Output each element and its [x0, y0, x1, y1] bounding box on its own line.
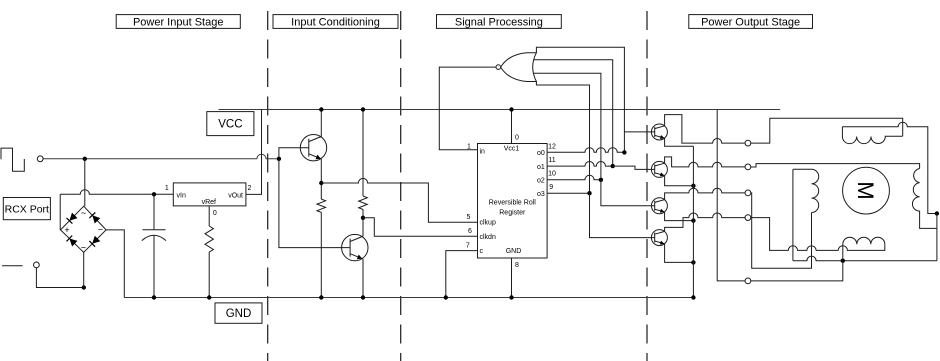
GND rail: [124, 297, 693, 299]
terminal J7: [745, 278, 751, 284]
junction: o0 node: [622, 150, 626, 154]
wire: AC tap down to bridge: [84, 159, 86, 206]
svg-text:0: 0: [515, 135, 519, 142]
resistor R3: [359, 196, 368, 210]
wire: o1 row: [547, 162, 613, 167]
wire: clkdn to register: [363, 218, 478, 237]
junction: o3 node: [587, 191, 591, 195]
junction: clkup node: [319, 181, 323, 185]
wire: J2 to bridge AC2: [36, 268, 83, 288]
svg-text:7: 7: [466, 243, 470, 250]
wire: bridge - to GND: [106, 230, 124, 298]
wire: L1 left to motor-right node: [842, 122, 937, 213]
wire: R3 to Q2 collector node: [362, 210, 364, 218]
wire: vRef lead: [208, 206, 210, 226]
junction: R2 bottom on GND: [319, 295, 323, 299]
wire: Q3 emitter to bus: [665, 138, 694, 146]
VCC rail: [219, 109, 781, 111]
wire: o1 to Q4 base: [613, 166, 655, 169]
voltage regulator U1: [173, 183, 246, 206]
wire: node A to Q2 base: [279, 159, 350, 248]
svg-text:−: −: [98, 225, 103, 235]
svg-text:GND: GND: [506, 248, 522, 255]
stage label: Power Input Stage: [116, 15, 240, 29]
NOR gate U2: [501, 53, 537, 82]
register U3 (Reversible Roll Register): [478, 144, 548, 259]
svg-text:5: 5: [467, 214, 471, 221]
svg-text:8: 8: [515, 262, 519, 269]
svg-text:vOut: vOut: [228, 192, 243, 199]
terminal J5: [745, 190, 751, 196]
square wave source icon: [1, 148, 24, 171]
emitter bus to GND: [692, 146, 694, 297]
svg-text:11: 11: [548, 157, 555, 164]
wire: gate input 4: [536, 82, 589, 194]
svg-text:clkdn: clkdn: [480, 234, 496, 241]
wire: Q5 collector to J5: [665, 188, 745, 199]
stage label: Signal Processing: [437, 15, 562, 29]
stage separator 1 (dashed): [267, 11, 269, 361]
wire: J6 to L3 baseline: [751, 218, 885, 251]
terminal J2: [34, 262, 40, 268]
inductor L2 (left): [793, 169, 819, 212]
junction: C1 top: [152, 192, 156, 196]
svg-text:in: in: [480, 148, 486, 155]
junction: Q1 collector on VCC: [319, 107, 323, 111]
junction: o2 node: [599, 178, 603, 182]
svg-text:o2: o2: [537, 178, 545, 185]
wire: L2 top to W5: [792, 169, 794, 260]
junction: right node top: [935, 211, 939, 215]
wire: bridge + output to vIn: [60, 190, 173, 195]
wire: right node down to W5: [936, 214, 938, 261]
svg-text:RCX Port: RCX Port: [5, 203, 49, 215]
stage label: Power Output Stage: [689, 15, 813, 29]
wire: o0 to Q3 base: [624, 131, 654, 133]
stage label: Input Conditioning: [273, 15, 398, 29]
junction: bridge AC tap: [83, 157, 87, 161]
wire: Q1 emitter down: [320, 159, 322, 199]
inductor L3 (bottom): [843, 237, 885, 261]
capacitor C1: [153, 194, 155, 229]
wire: J1 to node A: [43, 154, 279, 159]
junction: Vcc1 on VCC: [509, 107, 513, 111]
svg-text:o1: o1: [537, 164, 545, 171]
svg-text:9: 9: [549, 184, 553, 191]
junction: o1 node: [611, 164, 615, 168]
resistor R1 (vRef): [205, 226, 213, 252]
wire: Q4 collector to J4: [665, 157, 745, 167]
wire: Q6 emitter to bus: [665, 244, 694, 263]
junction: c pin on GND: [444, 295, 448, 299]
junction: R1 bottom on GND: [207, 295, 211, 299]
wire: J5 to L2 bottom: [751, 193, 812, 268]
wire: gate input 3: [534, 73, 601, 180]
svg-text:clkup: clkup: [480, 220, 496, 227]
wire: c pin to GND: [446, 251, 478, 298]
wire: R1 to GND: [208, 252, 210, 297]
svg-text:0: 0: [213, 210, 217, 217]
wire: vOut to VCC rail: [246, 110, 262, 195]
wire: o2 row: [547, 175, 601, 180]
wire: gate input 1: [536, 47, 624, 152]
input stub wire: [2, 265, 23, 267]
terminal J3: [745, 140, 751, 146]
inductor L4 (right): [912, 169, 936, 229]
wire: Vcc1 pin to VCC rail: [511, 110, 513, 144]
wire: Q2 collector up: [362, 218, 364, 237]
motor M1: [843, 167, 890, 214]
junction: C1 bottom on GND: [152, 295, 156, 299]
junction: GND pin on rail: [509, 295, 513, 299]
wire: o3 row: [547, 192, 589, 194]
wire: J7 to W5 node: [751, 261, 843, 281]
terminal J1: [37, 156, 43, 162]
wire: o0 row: [547, 148, 624, 153]
svg-text:Signal Processing: Signal Processing: [455, 17, 543, 29]
svg-text:Power Output Stage: Power Output Stage: [701, 17, 800, 29]
wire: gate output to register in: [439, 67, 496, 150]
svg-text:vRef: vRef: [202, 199, 216, 206]
junction: bus on GND rail: [691, 295, 695, 299]
wire: gate input 2: [534, 60, 613, 166]
junction: node A: [277, 157, 281, 161]
svg-text:GND: GND: [226, 308, 252, 320]
terminal J6: [745, 215, 751, 221]
inductor L1 (top): [842, 127, 902, 144]
svg-text:6: 6: [468, 228, 472, 235]
RCX Port label: [3, 198, 50, 220]
svg-text:M: M: [853, 181, 878, 199]
transistor Q5: [651, 198, 667, 214]
svg-text:1: 1: [165, 185, 169, 192]
transistor Q3: [651, 124, 667, 140]
svg-text:vIn: vIn: [177, 192, 186, 199]
wire: bridge + riser: [59, 194, 61, 230]
svg-text:2: 2: [248, 185, 252, 192]
svg-text:1: 1: [467, 143, 471, 150]
junction: Q4 emitter on bus: [691, 184, 695, 188]
svg-text:o3: o3: [537, 191, 545, 198]
svg-text:VCC: VCC: [218, 119, 242, 131]
svg-text:~: ~: [81, 243, 86, 253]
svg-text:o0: o0: [537, 150, 545, 157]
wire: clkup to register: [321, 178, 477, 222]
wire: R2 to GND: [320, 212, 322, 297]
wire: Q4 emitter to bus: [665, 176, 694, 186]
bridge rectifier B1: [61, 206, 107, 252]
VCC label: [207, 112, 254, 136]
junction: J2 corner: [82, 285, 86, 289]
junction: Q5 emitter on bus: [691, 218, 695, 222]
wire: Q2 emitter to GND: [362, 259, 364, 298]
wire: o3 to Q6 base: [590, 193, 655, 237]
svg-text:Input Conditioning: Input Conditioning: [291, 17, 380, 29]
wire: o2 to Q5 base: [601, 180, 655, 206]
junction: clkdn node: [361, 216, 365, 220]
svg-text:~: ~: [81, 208, 86, 218]
wire: J4 to field coil L4: [751, 164, 920, 169]
junction: R3 top on VCC: [361, 107, 365, 111]
svg-text:10: 10: [548, 170, 556, 177]
wire: bridge AC2 lead: [83, 252, 85, 287]
wire: VCC to J7: [717, 110, 745, 281]
svg-text:12: 12: [548, 144, 556, 151]
wire: Q3 collector to J3: [665, 115, 745, 144]
svg-text:Register: Register: [499, 209, 526, 216]
stage separator 2 (dashed): [400, 11, 402, 361]
transistor Q4: [651, 161, 667, 177]
wire: Q6 collector to J6: [665, 213, 745, 231]
svg-text:Power Input Stage: Power Input Stage: [133, 17, 224, 29]
transistor Q2: [342, 234, 368, 260]
junction: Q6 emitter on bus: [691, 260, 695, 264]
wire: GND pin to GND rail: [511, 258, 513, 298]
transistor Q6: [651, 230, 667, 246]
junction: Q2 emitter on GND: [361, 295, 365, 299]
terminal J4: [745, 164, 751, 170]
wire: VCC to R3: [362, 110, 364, 197]
svg-text:Reversible Roll: Reversible Roll: [489, 200, 537, 207]
wire: Q5 emitter to bus: [665, 212, 694, 221]
wire: node A to Q1 base: [279, 148, 309, 159]
svg-text:c: c: [480, 248, 484, 255]
svg-text:Vcc1: Vcc1: [504, 146, 520, 153]
junction: L3 tap on W5: [841, 259, 845, 263]
wire: J3 to L1 right: [751, 118, 903, 143]
stage separator 3 (dashed): [646, 11, 648, 361]
resistor R2: [317, 199, 326, 212]
GND label: [215, 303, 262, 323]
svg-text:+: +: [64, 225, 69, 235]
wire: W5 common: [793, 256, 937, 261]
wire: Q1 collector to VCC: [320, 110, 322, 137]
transistor Q1: [300, 135, 326, 161]
